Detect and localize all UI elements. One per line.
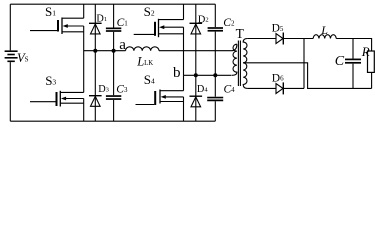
- transformer T secondary winding lower half: [243, 63, 247, 89]
- svg-text:b: b: [173, 65, 181, 81]
- svg-text:C3: C3: [116, 84, 128, 96]
- svg-text:D6: D6: [272, 72, 284, 84]
- wire node a: [84, 50, 126, 52]
- capacitor C: [345, 59, 361, 62]
- wire C2 to C4 (through node b): [214, 32, 216, 97]
- wire S4 source to bottom rail: [183, 97, 185, 121]
- svg-text:VS: VS: [17, 51, 29, 65]
- wire bottom rail: [10, 120, 215, 122]
- wire left rail upper segment: [9, 4, 11, 50]
- wire C2 top lead: [214, 4, 216, 27]
- resistor R load box: [368, 51, 375, 72]
- svg-text:S1: S1: [45, 4, 56, 19]
- svg-text:LLK: LLK: [136, 54, 153, 68]
- wire C bottom lead: [352, 64, 354, 89]
- svg-text:D5: D5: [272, 23, 284, 35]
- transformer T core lines: [238, 41, 240, 87]
- svg-text:D3: D3: [98, 84, 109, 95]
- diode D4: [190, 96, 203, 107]
- inductor L: [313, 35, 336, 39]
- node a junction dot on D branch: [93, 49, 97, 53]
- inductor LLK: [126, 47, 160, 51]
- node a junction dot on C branch: [112, 49, 116, 53]
- svg-text:T: T: [236, 26, 245, 41]
- wire S1 drain to top rail: [83, 4, 85, 18]
- capacitor C3: [106, 96, 121, 99]
- diode D1: [89, 23, 102, 34]
- svg-text:C: C: [335, 54, 345, 69]
- diode D5: [276, 33, 283, 45]
- svg-text:S3: S3: [45, 73, 56, 88]
- wire S2 drain to top rail: [183, 4, 185, 19]
- capacitor C2: [208, 28, 223, 31]
- wire C4 bottom lead: [214, 101, 216, 121]
- wire S1 source / S3 drain (left leg midpoint): [83, 26, 85, 92]
- wire left rail lower segment: [9, 62, 11, 121]
- svg-text:L: L: [320, 23, 328, 37]
- diode D3: [89, 96, 102, 107]
- wire node a to transformer primary: [159, 44, 237, 51]
- transistor S2: [134, 19, 184, 37]
- wire C3 bottom lead: [113, 100, 115, 121]
- wire C1 top lead: [113, 4, 115, 27]
- transformer T primary winding: [232, 44, 237, 75]
- svg-text:C1: C1: [117, 17, 129, 29]
- diode D2: [190, 23, 203, 34]
- wire secondary center tap to output return: [243, 63, 371, 89]
- wire secondary top to D5 anode: [247, 38, 276, 40]
- transistor S3: [30, 91, 84, 107]
- svg-text:S2: S2: [144, 4, 155, 19]
- wire top rail: [10, 3, 215, 5]
- wire secondary bottom to D6 anode: [247, 87, 276, 89]
- wire D6 cathode junction riser: [303, 39, 305, 89]
- wire S4 drain to node b: [183, 75, 185, 90]
- capacitor C1: [106, 28, 121, 31]
- svg-text:S4: S4: [144, 72, 155, 87]
- wire D5 cathode to inductor L: [283, 38, 313, 40]
- wire C top lead: [352, 39, 354, 59]
- wire R bottom lead: [371, 72, 373, 88]
- transistor S4: [136, 90, 184, 106]
- wire D6 cathode to riser: [283, 87, 304, 89]
- battery source VS: [5, 51, 18, 61]
- wire L to load R top: [336, 39, 371, 52]
- capacitor C4: [207, 98, 223, 101]
- node b junction dot on D branch: [194, 73, 198, 77]
- wire D1-D3 branch: [94, 4, 96, 121]
- wire S3 source to bottom rail: [83, 99, 85, 122]
- wire C1 to C3 (through node a): [113, 32, 115, 95]
- diode D6: [276, 82, 283, 94]
- svg-text:a: a: [119, 37, 126, 53]
- svg-text:R: R: [361, 44, 370, 59]
- node b junction dot on C branch: [213, 73, 217, 77]
- transformer T secondary winding upper half: [243, 39, 247, 63]
- svg-text:D1: D1: [96, 14, 107, 25]
- svg-text:D4: D4: [197, 84, 208, 95]
- wire node b: [184, 74, 232, 76]
- svg-text:C4: C4: [224, 84, 236, 96]
- wire D2-D4 branch: [195, 4, 197, 121]
- svg-text:C2: C2: [223, 17, 235, 29]
- svg-text:D2: D2: [198, 14, 209, 25]
- transistor S1: [30, 18, 84, 35]
- wire S2 source down to node b (crosses node a wire): [183, 27, 185, 75]
